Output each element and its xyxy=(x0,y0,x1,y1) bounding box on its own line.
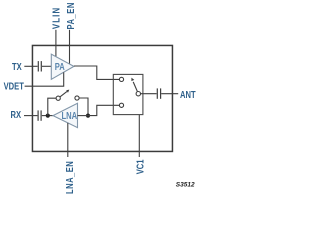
wire node B to antenna switch port 2 xyxy=(88,105,119,115)
switch S1 bypass contact right xyxy=(75,96,79,100)
capacitor C2 (RX blocking cap) xyxy=(38,110,41,120)
op-amp U2 LNA triangle (points left) xyxy=(53,103,78,127)
pin VLIN lead wire xyxy=(55,30,57,57)
op-amp U1 PA triangle xyxy=(51,54,74,79)
wire LNA_EN lead xyxy=(67,123,69,157)
wire switch common to antenna cap xyxy=(141,93,157,95)
pin label TX xyxy=(12,61,22,72)
wire LNA base to node B xyxy=(78,115,89,117)
wire TX lead into box xyxy=(24,65,37,67)
svg-text:RX: RX xyxy=(11,109,22,120)
switch S1 bypass contact left xyxy=(56,96,60,100)
label LNA xyxy=(61,110,77,121)
svg-text:LNA_EN: LNA_EN xyxy=(64,161,75,194)
pin label RX xyxy=(11,109,22,120)
wire C2 to LNA output node xyxy=(42,115,53,117)
wire PA output to antenna switch port 1 xyxy=(74,66,120,79)
label PA xyxy=(55,61,65,72)
figure number S3512 xyxy=(176,181,195,188)
switch U3 port 2 contact (to LNA) xyxy=(119,103,123,107)
switch U3 common contact (to ANT) xyxy=(136,92,140,96)
pin label VDET xyxy=(4,80,25,91)
switch S1 arm with arrow xyxy=(60,90,69,97)
wire C1 to PA input xyxy=(42,65,51,67)
node B (LNA input junction) xyxy=(86,114,90,118)
svg-text:VDET: VDET xyxy=(4,80,25,91)
pin PA_EN lead wire xyxy=(69,30,71,65)
svg-text:LNA: LNA xyxy=(61,110,77,121)
wire C3 to ANT pin xyxy=(161,93,178,95)
svg-text:PA: PA xyxy=(55,61,65,72)
pin label LNA_EN xyxy=(64,161,75,194)
pin label VC1 xyxy=(134,159,145,174)
antenna switch U3 box xyxy=(113,74,143,114)
capacitor C1 (TX blocking cap) xyxy=(38,61,41,71)
module outline box xyxy=(32,45,172,151)
pin label PA_EN xyxy=(65,2,76,29)
wire bypass right down to LNA input node xyxy=(79,98,88,116)
svg-text:VLIN: VLIN xyxy=(51,7,62,29)
wire LNA bypass riser left xyxy=(48,98,56,115)
svg-text:PA_EN: PA_EN xyxy=(65,2,76,29)
node A (LNA output junction) xyxy=(46,114,50,118)
capacitor C3 (ANT coupling cap) xyxy=(157,88,160,98)
pin label ANT xyxy=(180,89,196,100)
svg-text:S3512: S3512 xyxy=(176,181,195,188)
switch U3 arm with arrow xyxy=(131,78,137,92)
switch U3 port 1 contact (from PA) xyxy=(119,77,123,81)
svg-text:TX: TX xyxy=(12,61,22,72)
svg-text:VC1: VC1 xyxy=(134,159,145,174)
svg-text:ANT: ANT xyxy=(180,89,196,100)
wire RX lead into box xyxy=(24,115,37,117)
wire VC1 lead xyxy=(138,115,140,157)
wire VDET lead xyxy=(25,72,64,86)
pin label VLIN xyxy=(51,7,62,29)
